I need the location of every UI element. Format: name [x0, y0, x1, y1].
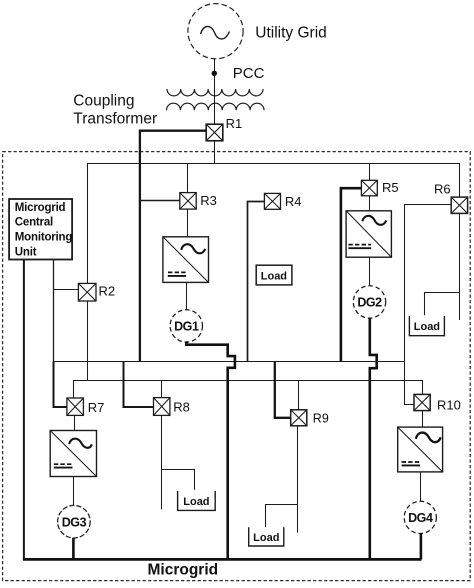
svg-text:R9: R9	[313, 412, 329, 426]
svg-text:Load: Load	[414, 321, 440, 333]
svg-text:DG3: DG3	[62, 515, 87, 529]
svg-text:DG4: DG4	[408, 511, 433, 525]
svg-text:R5: R5	[382, 180, 399, 195]
svg-text:Load: Load	[183, 496, 209, 508]
svg-text:Coupling: Coupling	[73, 92, 134, 109]
svg-text:R10: R10	[437, 398, 461, 413]
svg-text:Load: Load	[253, 532, 279, 544]
svg-text:R7: R7	[88, 400, 105, 415]
svg-text:DG1: DG1	[174, 320, 199, 334]
svg-text:PCC: PCC	[233, 65, 265, 82]
svg-text:Central: Central	[15, 217, 53, 229]
svg-text:Utility Grid: Utility Grid	[255, 25, 326, 42]
svg-text:R6: R6	[434, 182, 451, 197]
svg-text:R2: R2	[99, 284, 116, 299]
svg-text:Load: Load	[261, 270, 287, 282]
svg-text:Unit: Unit	[15, 246, 37, 258]
svg-text:Microgrid: Microgrid	[148, 562, 219, 579]
svg-text:Microgrid: Microgrid	[15, 202, 66, 214]
svg-text:Transformer: Transformer	[73, 110, 157, 127]
svg-text:DG2: DG2	[357, 296, 382, 310]
svg-text:R3: R3	[200, 193, 217, 208]
svg-text:R4: R4	[285, 194, 302, 209]
svg-text:Monitoring: Monitoring	[15, 232, 73, 244]
svg-text:R8: R8	[173, 400, 190, 415]
svg-text:R1: R1	[226, 116, 243, 131]
